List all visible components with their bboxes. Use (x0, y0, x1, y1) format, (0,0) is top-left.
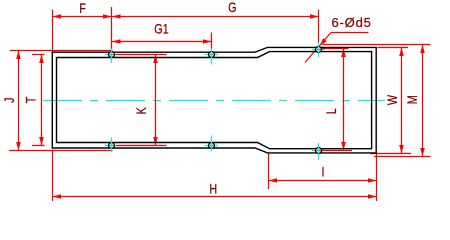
arrow J up (16, 51, 21, 60)
leader diagonal 6-d5 (305, 33, 331, 63)
ext line J bottom (9, 150, 113, 152)
arrow G left (112, 14, 121, 19)
ext line hole1 to K (116, 54, 167, 56)
ext line hole3 up (318, 10, 320, 43)
dim line M (422, 45, 424, 157)
ext line HI right (376, 153, 378, 201)
centerline (43, 100, 385, 102)
arrow G1 left (112, 39, 121, 44)
svg-text:G1: G1 (154, 21, 169, 36)
dim line K (155, 55, 157, 146)
hole 4 (316, 148, 322, 154)
ext line M top (323, 44, 431, 46)
svg-text:6-Ød5: 6-Ød5 (332, 15, 372, 30)
ext line L top (322, 48, 349, 50)
hole 6 center dot (210, 144, 212, 146)
ext line W bottom (370, 153, 411, 155)
arrow G1 right (203, 39, 212, 44)
arrow K up (153, 55, 158, 64)
ext line M bottom (374, 156, 431, 158)
part outer outline (52, 47, 376, 152)
hole crosshair h1 (105, 54, 118, 56)
hole crosshair h3 (312, 49, 325, 51)
arrow H left (53, 194, 62, 199)
dim line T (41, 55, 43, 146)
ext line J top (10, 50, 113, 52)
dim line L (343, 49, 345, 151)
arrow W down (399, 145, 404, 154)
svg-text:J: J (2, 98, 17, 103)
svg-text:H: H (209, 181, 217, 196)
hole crosshair v2 (211, 49, 213, 65)
ext line L bottom (322, 150, 352, 152)
arrow H right (368, 194, 377, 199)
hole crosshair h4 (312, 150, 325, 152)
leader shelf 6-d5 (331, 32, 369, 34)
part inner outline (57, 52, 372, 149)
arrow K down (153, 137, 158, 146)
hole 2 center dot (210, 53, 212, 55)
arrow T up (39, 55, 44, 64)
svg-text:G: G (228, 0, 236, 15)
ext line T top (32, 54, 45, 56)
ext line H left (52, 150, 54, 202)
hole crosshair v6 (211, 136, 213, 152)
arrow I right (368, 178, 377, 183)
svg-text:T: T (23, 96, 38, 103)
hole 2 (209, 52, 215, 58)
dim line G1 (112, 41, 212, 43)
hole crosshair v1 (111, 49, 113, 64)
hole crosshair v5 (111, 138, 113, 153)
arrow W up (399, 48, 404, 57)
arrow I left (269, 178, 278, 183)
ext line I left (268, 154, 270, 190)
hole crosshair h2 (205, 54, 218, 56)
svg-text:F: F (79, 1, 86, 16)
arrow F right (103, 14, 112, 19)
ext line hole1 up (111, 7, 113, 50)
hole crosshair h6 (205, 145, 218, 147)
ext line hole2 up (211, 33, 213, 50)
arrow M down (420, 148, 425, 157)
arrow leader (320, 38, 327, 46)
hole 6 (209, 143, 215, 149)
hole crosshair h5 (105, 145, 118, 147)
hole 3 (316, 47, 322, 53)
dim line F G (53, 16, 319, 18)
arrow T down (39, 137, 44, 146)
ext line T bottom (32, 145, 45, 147)
arrow F left (53, 14, 62, 19)
hole 1 center dot (110, 53, 112, 55)
dim line W (401, 48, 403, 154)
hole 4 center dot (317, 149, 319, 151)
svg-text:K: K (134, 106, 149, 114)
hole crosshair v3 (318, 43, 320, 58)
svg-text:L: L (324, 108, 339, 114)
svg-text:I: I (321, 164, 324, 179)
hole crosshair v4 (318, 143, 320, 160)
arrow L down (341, 142, 346, 151)
arrow G right (310, 14, 319, 19)
dim line J (18, 51, 20, 151)
svg-text:W: W (385, 94, 400, 105)
arrow M up (420, 45, 425, 54)
arrow J down (16, 142, 21, 151)
dim line I (269, 180, 377, 182)
ext line F left (52, 10, 54, 52)
svg-text:M: M (405, 95, 420, 104)
hole 3 center dot (317, 48, 319, 50)
ext line W top (378, 47, 409, 49)
ext line hole5 to K (116, 145, 167, 147)
dim line H (53, 196, 377, 198)
hole 5 center dot (110, 144, 112, 146)
hole 5 (109, 143, 115, 149)
arrow L up (341, 49, 346, 58)
hole 1 (109, 52, 115, 58)
